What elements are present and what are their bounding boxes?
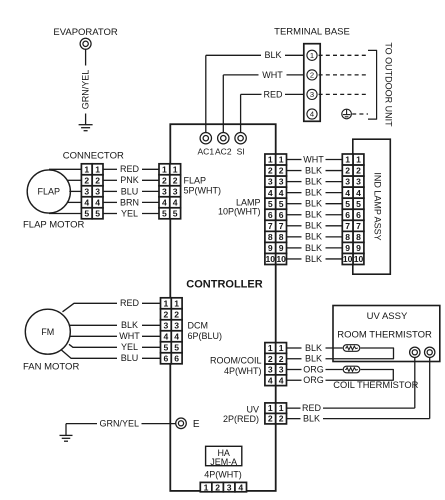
svg-text:BLK: BLK: [305, 165, 322, 175]
svg-text:1: 1: [345, 155, 350, 165]
box UV ASSY: [333, 306, 440, 362]
svg-text:4: 4: [162, 197, 167, 207]
terminal AC1: [198, 133, 215, 157]
label DCM 6P(BLU): [188, 320, 223, 341]
wire BLK lamp pin 6: [287, 210, 343, 220]
svg-text:5: 5: [268, 199, 273, 209]
svg-text:7: 7: [268, 221, 273, 231]
wire BLK lamp pin 9: [287, 243, 343, 253]
svg-text:7: 7: [356, 221, 361, 231]
label TO OUTDOOR UNIT: [383, 42, 393, 127]
svg-text:1: 1: [279, 155, 284, 165]
svg-text:1: 1: [162, 164, 167, 174]
wire RED SI to terminal 3: [241, 89, 304, 132]
svg-text:FM: FM: [41, 327, 54, 337]
svg-text:CONTROLLER: CONTROLLER: [186, 278, 262, 290]
svg-text:RED: RED: [120, 164, 140, 174]
wire WHT fan motor pin 4: [70, 331, 161, 341]
svg-text:3: 3: [345, 177, 350, 187]
svg-text:2: 2: [279, 166, 284, 176]
svg-text:GRN/YEL: GRN/YEL: [99, 418, 139, 428]
wire BLK UV pin 2: [287, 414, 430, 424]
svg-text:CONNECTOR: CONNECTOR: [63, 151, 124, 162]
svg-text:ROOM THERMISTOR: ROOM THERMISTOR: [337, 329, 432, 340]
svg-text:2: 2: [279, 354, 284, 364]
svg-text:1: 1: [310, 51, 314, 60]
wire GRN/YEL earth: [66, 418, 176, 435]
svg-text:SI: SI: [237, 146, 245, 156]
svg-text:9: 9: [268, 243, 273, 253]
svg-text:PNK: PNK: [120, 175, 139, 185]
box HA JEM-A: [206, 446, 242, 467]
wire BLK lamp pin 7: [287, 221, 343, 231]
terminal base pin 1: [307, 50, 317, 60]
svg-text:6: 6: [268, 210, 273, 220]
svg-text:BLK: BLK: [121, 320, 138, 330]
svg-text:4: 4: [279, 188, 284, 198]
svg-text:WHT: WHT: [303, 154, 324, 164]
wire YEL flap motor pin 5: [49, 208, 159, 218]
svg-text:5: 5: [356, 199, 361, 209]
svg-text:8: 8: [268, 232, 273, 242]
svg-text:2: 2: [215, 482, 220, 492]
dashed wire terminal 3 to outdoor: [319, 93, 368, 95]
svg-text:WHT: WHT: [119, 331, 140, 341]
wire RED fan motor pin 1: [63, 298, 161, 312]
wire BLK room thermistor lead 1: [287, 343, 343, 353]
wire YEL fan motor pin 5: [69, 342, 161, 352]
wire BLK AC1 to terminal 1: [206, 50, 304, 132]
svg-text:BLK: BLK: [264, 50, 281, 60]
box IND LAMP ASSY: [353, 139, 391, 274]
svg-text:GRN/YEL: GRN/YEL: [81, 70, 91, 110]
svg-text:2: 2: [356, 166, 361, 176]
svg-text:1: 1: [268, 403, 273, 413]
svg-text:BLK: BLK: [305, 199, 322, 209]
wire BLK lamp pin 5: [287, 199, 343, 209]
terminal base pin 3: [307, 89, 317, 99]
label 4P(WHT) HA connector: [204, 470, 242, 480]
svg-text:ROOM/COIL: ROOM/COIL: [210, 356, 262, 366]
svg-text:YEL: YEL: [121, 208, 138, 218]
svg-text:EVAPORATOR: EVAPORATOR: [53, 27, 118, 38]
label FLAP 5P(WHT): [184, 176, 222, 196]
svg-text:5: 5: [164, 342, 169, 352]
svg-text:3: 3: [356, 177, 361, 187]
svg-text:3: 3: [279, 177, 284, 187]
terminal E: [176, 418, 200, 430]
svg-text:9: 9: [356, 243, 361, 253]
terminal SI: [235, 133, 246, 157]
terminal UV room: [410, 347, 420, 408]
svg-text:5: 5: [173, 208, 178, 218]
label CONNECTOR: [63, 151, 124, 162]
connector DCM 6P(BLU): [161, 298, 183, 364]
svg-text:6P(BLU): 6P(BLU): [188, 331, 223, 341]
svg-text:2: 2: [174, 309, 179, 319]
svg-text:1: 1: [356, 155, 361, 165]
svg-text:IND LAMP ASSY: IND LAMP ASSY: [372, 172, 382, 240]
svg-text:AC2: AC2: [215, 146, 232, 156]
svg-text:BLK: BLK: [305, 243, 322, 253]
wire BRN flap motor pin 4: [67, 197, 159, 207]
wire GRN/YEL evaporator: [81, 49, 91, 124]
wire BLK lamp pin 4: [287, 188, 343, 198]
wire RED flap motor pin 1: [49, 164, 159, 174]
svg-text:1: 1: [174, 298, 179, 308]
svg-text:BLK: BLK: [305, 343, 322, 353]
svg-text:BLK: BLK: [305, 232, 322, 242]
svg-text:3: 3: [310, 90, 314, 99]
svg-text:10: 10: [343, 254, 353, 264]
svg-text:4: 4: [345, 188, 350, 198]
label UV ASSY: [367, 311, 408, 322]
wire RED UV pin 1: [287, 403, 415, 413]
svg-text:4: 4: [238, 482, 243, 492]
svg-text:BLK: BLK: [305, 188, 322, 198]
svg-text:9: 9: [345, 243, 350, 253]
svg-text:BLK: BLK: [305, 254, 322, 264]
svg-text:5: 5: [345, 199, 350, 209]
svg-text:1: 1: [204, 482, 209, 492]
fan motor FM: [25, 309, 70, 354]
connector HA 4P(WHT): [200, 482, 246, 492]
bracket to outdoor unit: [368, 50, 377, 119]
svg-text:1: 1: [173, 164, 178, 174]
connector FLAP 5P(WHT): [159, 164, 181, 219]
terminal evaporator earth: [80, 38, 91, 49]
svg-text:6: 6: [345, 210, 350, 220]
svg-text:RED: RED: [120, 298, 140, 308]
svg-text:10: 10: [354, 254, 364, 264]
dashed wire terminal 2 to outdoor: [319, 74, 368, 76]
svg-text:2: 2: [279, 414, 284, 424]
svg-text:COIL THERMISTOR: COIL THERMISTOR: [333, 380, 418, 390]
svg-text:ORG: ORG: [303, 375, 324, 385]
svg-text:BLK: BLK: [303, 414, 320, 424]
controller box: [170, 124, 275, 491]
svg-text:5: 5: [162, 208, 167, 218]
svg-text:3: 3: [162, 186, 167, 196]
svg-text:1: 1: [84, 164, 89, 174]
svg-text:4: 4: [310, 110, 314, 119]
label CONTROLLER: [186, 278, 262, 290]
label UV 2P(RED): [223, 405, 259, 424]
svg-text:BLK: BLK: [305, 221, 322, 231]
svg-text:2: 2: [268, 166, 273, 176]
wire BLK lamp pin 3: [287, 176, 343, 186]
svg-text:FLAP MOTOR: FLAP MOTOR: [23, 220, 85, 231]
svg-text:1: 1: [279, 343, 284, 353]
room thermistor element: [343, 345, 360, 352]
svg-text:RED: RED: [263, 89, 283, 99]
wire BLK lamp pin 10: [287, 254, 343, 264]
svg-text:FLAP: FLAP: [38, 187, 61, 197]
svg-text:FAN MOTOR: FAN MOTOR: [23, 361, 79, 372]
coil thermistor element: [343, 366, 360, 373]
svg-text:9: 9: [279, 243, 284, 253]
svg-text:BLK: BLK: [305, 354, 322, 364]
svg-text:BRN: BRN: [120, 197, 139, 207]
svg-text:2: 2: [84, 175, 89, 185]
svg-text:4: 4: [268, 188, 273, 198]
svg-text:6: 6: [279, 210, 284, 220]
svg-text:2: 2: [310, 71, 314, 80]
svg-text:1: 1: [164, 298, 169, 308]
svg-text:2: 2: [95, 175, 100, 185]
svg-text:10P(WHT): 10P(WHT): [218, 206, 261, 216]
wire WHT AC2 to terminal 2: [223, 70, 303, 133]
svg-text:3: 3: [173, 186, 178, 196]
svg-text:4: 4: [164, 331, 169, 341]
svg-text:4: 4: [174, 331, 179, 341]
terminal UV coil: [425, 347, 435, 419]
svg-text:DCM: DCM: [188, 320, 209, 330]
svg-text:5P(WHT): 5P(WHT): [184, 185, 222, 195]
label ROOM THERMISTOR: [337, 329, 432, 340]
svg-text:1: 1: [279, 403, 284, 413]
svg-text:WHT: WHT: [262, 70, 283, 80]
svg-text:3: 3: [164, 320, 169, 330]
wire BLK room thermistor lead 2: [287, 348, 394, 364]
svg-text:4P(WHT): 4P(WHT): [204, 470, 242, 480]
svg-text:6: 6: [174, 353, 179, 363]
connector IND LAMP board side: [342, 154, 364, 265]
label LAMP 10P(WHT): [218, 197, 261, 216]
label COIL THERMISTOR: [333, 380, 418, 390]
wire BLK lamp pin 8: [287, 232, 343, 242]
label FLAP MOTOR: [23, 220, 85, 231]
svg-text:2: 2: [162, 175, 167, 185]
svg-text:8: 8: [345, 232, 350, 242]
svg-text:3: 3: [268, 177, 273, 187]
svg-text:8: 8: [356, 232, 361, 242]
ground evaporator: [79, 125, 93, 131]
svg-text:2P(RED): 2P(RED): [223, 414, 259, 424]
wire ORG coil thermistor lead 2: [287, 370, 393, 386]
svg-text:10: 10: [266, 254, 276, 264]
svg-text:5: 5: [279, 199, 284, 209]
connector CONNECTOR flap motor side: [81, 164, 103, 219]
outdoor earth terminal: [342, 109, 368, 119]
wire BLK lamp pin 2: [287, 165, 343, 175]
dashed wire terminal 1 to outdoor: [319, 54, 368, 56]
svg-text:2: 2: [173, 175, 178, 185]
svg-text:1: 1: [268, 343, 273, 353]
connector UV 2P(RED): [265, 403, 287, 424]
svg-text:TO OUTDOOR UNIT: TO OUTDOOR UNIT: [383, 42, 393, 127]
svg-text:5: 5: [95, 208, 100, 218]
svg-text:5: 5: [174, 342, 179, 352]
svg-text:2: 2: [345, 166, 350, 176]
svg-text:8: 8: [279, 232, 284, 242]
terminal AC2: [215, 133, 232, 157]
svg-text:1: 1: [95, 164, 100, 174]
svg-text:4: 4: [173, 197, 178, 207]
terminal base pin 2: [307, 70, 317, 80]
wire PNK flap motor pin 2: [67, 175, 159, 185]
svg-text:7: 7: [345, 221, 350, 231]
svg-text:4: 4: [279, 375, 284, 385]
svg-text:FLAP: FLAP: [184, 176, 207, 186]
terminal base pin 4: [307, 109, 317, 119]
svg-text:7: 7: [279, 221, 284, 231]
flap motor: [27, 170, 70, 213]
svg-text:JEM-A: JEM-A: [210, 457, 237, 467]
svg-text:6: 6: [164, 353, 169, 363]
label ROOM/COIL 4P(WHT): [210, 356, 262, 377]
svg-text:AC1: AC1: [198, 146, 215, 156]
svg-text:3: 3: [95, 186, 100, 196]
svg-text:3: 3: [84, 186, 89, 196]
wire WHT lamp pin 1: [287, 154, 343, 164]
svg-text:YEL: YEL: [121, 342, 138, 352]
svg-text:5: 5: [84, 208, 89, 218]
label TERMINAL BASE: [274, 27, 350, 38]
svg-text:BLU: BLU: [121, 353, 139, 363]
wire BLK fan motor pin 3: [70, 320, 161, 330]
svg-text:BLU: BLU: [121, 186, 139, 196]
svg-text:BLK: BLK: [305, 210, 322, 220]
wire BLU flap motor pin 3: [69, 186, 159, 196]
svg-text:3: 3: [227, 482, 232, 492]
svg-text:4: 4: [95, 197, 100, 207]
svg-text:3: 3: [174, 320, 179, 330]
svg-text:2: 2: [268, 354, 273, 364]
connector LAMP 10P(WHT): [265, 154, 287, 265]
ground controller earth: [60, 435, 73, 441]
terminal base block: [304, 44, 320, 122]
wire ORG coil thermistor lead 1: [287, 364, 343, 374]
svg-text:4: 4: [84, 197, 89, 207]
svg-text:2: 2: [268, 414, 273, 424]
svg-text:3: 3: [279, 365, 284, 375]
svg-text:ORG: ORG: [303, 364, 324, 374]
label FAN MOTOR: [23, 361, 79, 372]
label IND LAMP ASSY: [372, 172, 382, 240]
svg-text:3: 3: [268, 365, 273, 375]
svg-text:4: 4: [356, 188, 361, 198]
wire BLU fan motor pin 6: [61, 350, 160, 363]
svg-text:4: 4: [268, 375, 273, 385]
svg-text:TERMINAL BASE: TERMINAL BASE: [274, 27, 350, 38]
svg-text:UV ASSY: UV ASSY: [367, 311, 408, 322]
connector ROOM/COIL 4P(WHT): [265, 343, 287, 386]
svg-text:BLK: BLK: [305, 176, 322, 186]
svg-text:4P(WHT): 4P(WHT): [224, 366, 262, 376]
svg-text:RED: RED: [302, 403, 322, 413]
svg-text:E: E: [193, 419, 200, 430]
svg-text:6: 6: [356, 210, 361, 220]
svg-text:2: 2: [164, 309, 169, 319]
label EVAPORATOR: [53, 27, 118, 38]
svg-text:1: 1: [268, 155, 273, 165]
svg-text:10: 10: [276, 254, 286, 264]
